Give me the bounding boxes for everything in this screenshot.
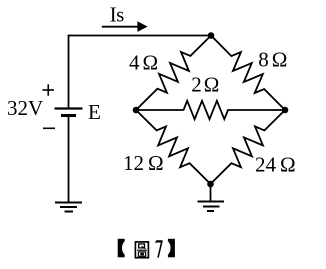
svg-text:32V: 32V xyxy=(7,96,43,120)
svg-text:24Ω: 24Ω xyxy=(255,153,296,177)
svg-text:2Ω: 2Ω xyxy=(191,73,219,97)
battery minus sign xyxy=(43,127,55,129)
resistor R 12ohm xyxy=(136,110,211,184)
resistor R 24ohm xyxy=(211,110,286,184)
wire bottom node to ground xyxy=(210,184,212,201)
wire battery bottom to ground xyxy=(68,116,70,202)
wire top horizontal to top node xyxy=(69,35,212,37)
caption digit 7 xyxy=(155,240,162,258)
battery E long plate xyxy=(55,107,83,109)
svg-text:Is: Is xyxy=(110,3,124,27)
caption bracket right xyxy=(162,239,175,257)
node right xyxy=(282,107,289,114)
node bottom xyxy=(207,181,214,188)
wire left vertical (battery + terminal up) xyxy=(68,35,70,108)
svg-text:E: E xyxy=(88,100,101,124)
current arrow Is xyxy=(102,26,139,28)
battery E short plate xyxy=(61,114,76,117)
node top xyxy=(208,32,215,39)
resistor R 8ohm xyxy=(211,36,285,111)
ground center xyxy=(198,202,225,212)
svg-text:12Ω: 12Ω xyxy=(123,151,164,175)
caption character tu (figure) xyxy=(135,242,148,258)
svg-text:8Ω: 8Ω xyxy=(258,47,287,71)
resistor R 4ohm xyxy=(136,36,211,111)
caption bracket left xyxy=(118,239,131,257)
resistor R 2ohm xyxy=(136,101,285,119)
battery plus sign xyxy=(43,84,55,95)
svg-text:4Ω: 4Ω xyxy=(129,50,158,74)
node left xyxy=(133,107,140,114)
ground left xyxy=(55,203,82,212)
